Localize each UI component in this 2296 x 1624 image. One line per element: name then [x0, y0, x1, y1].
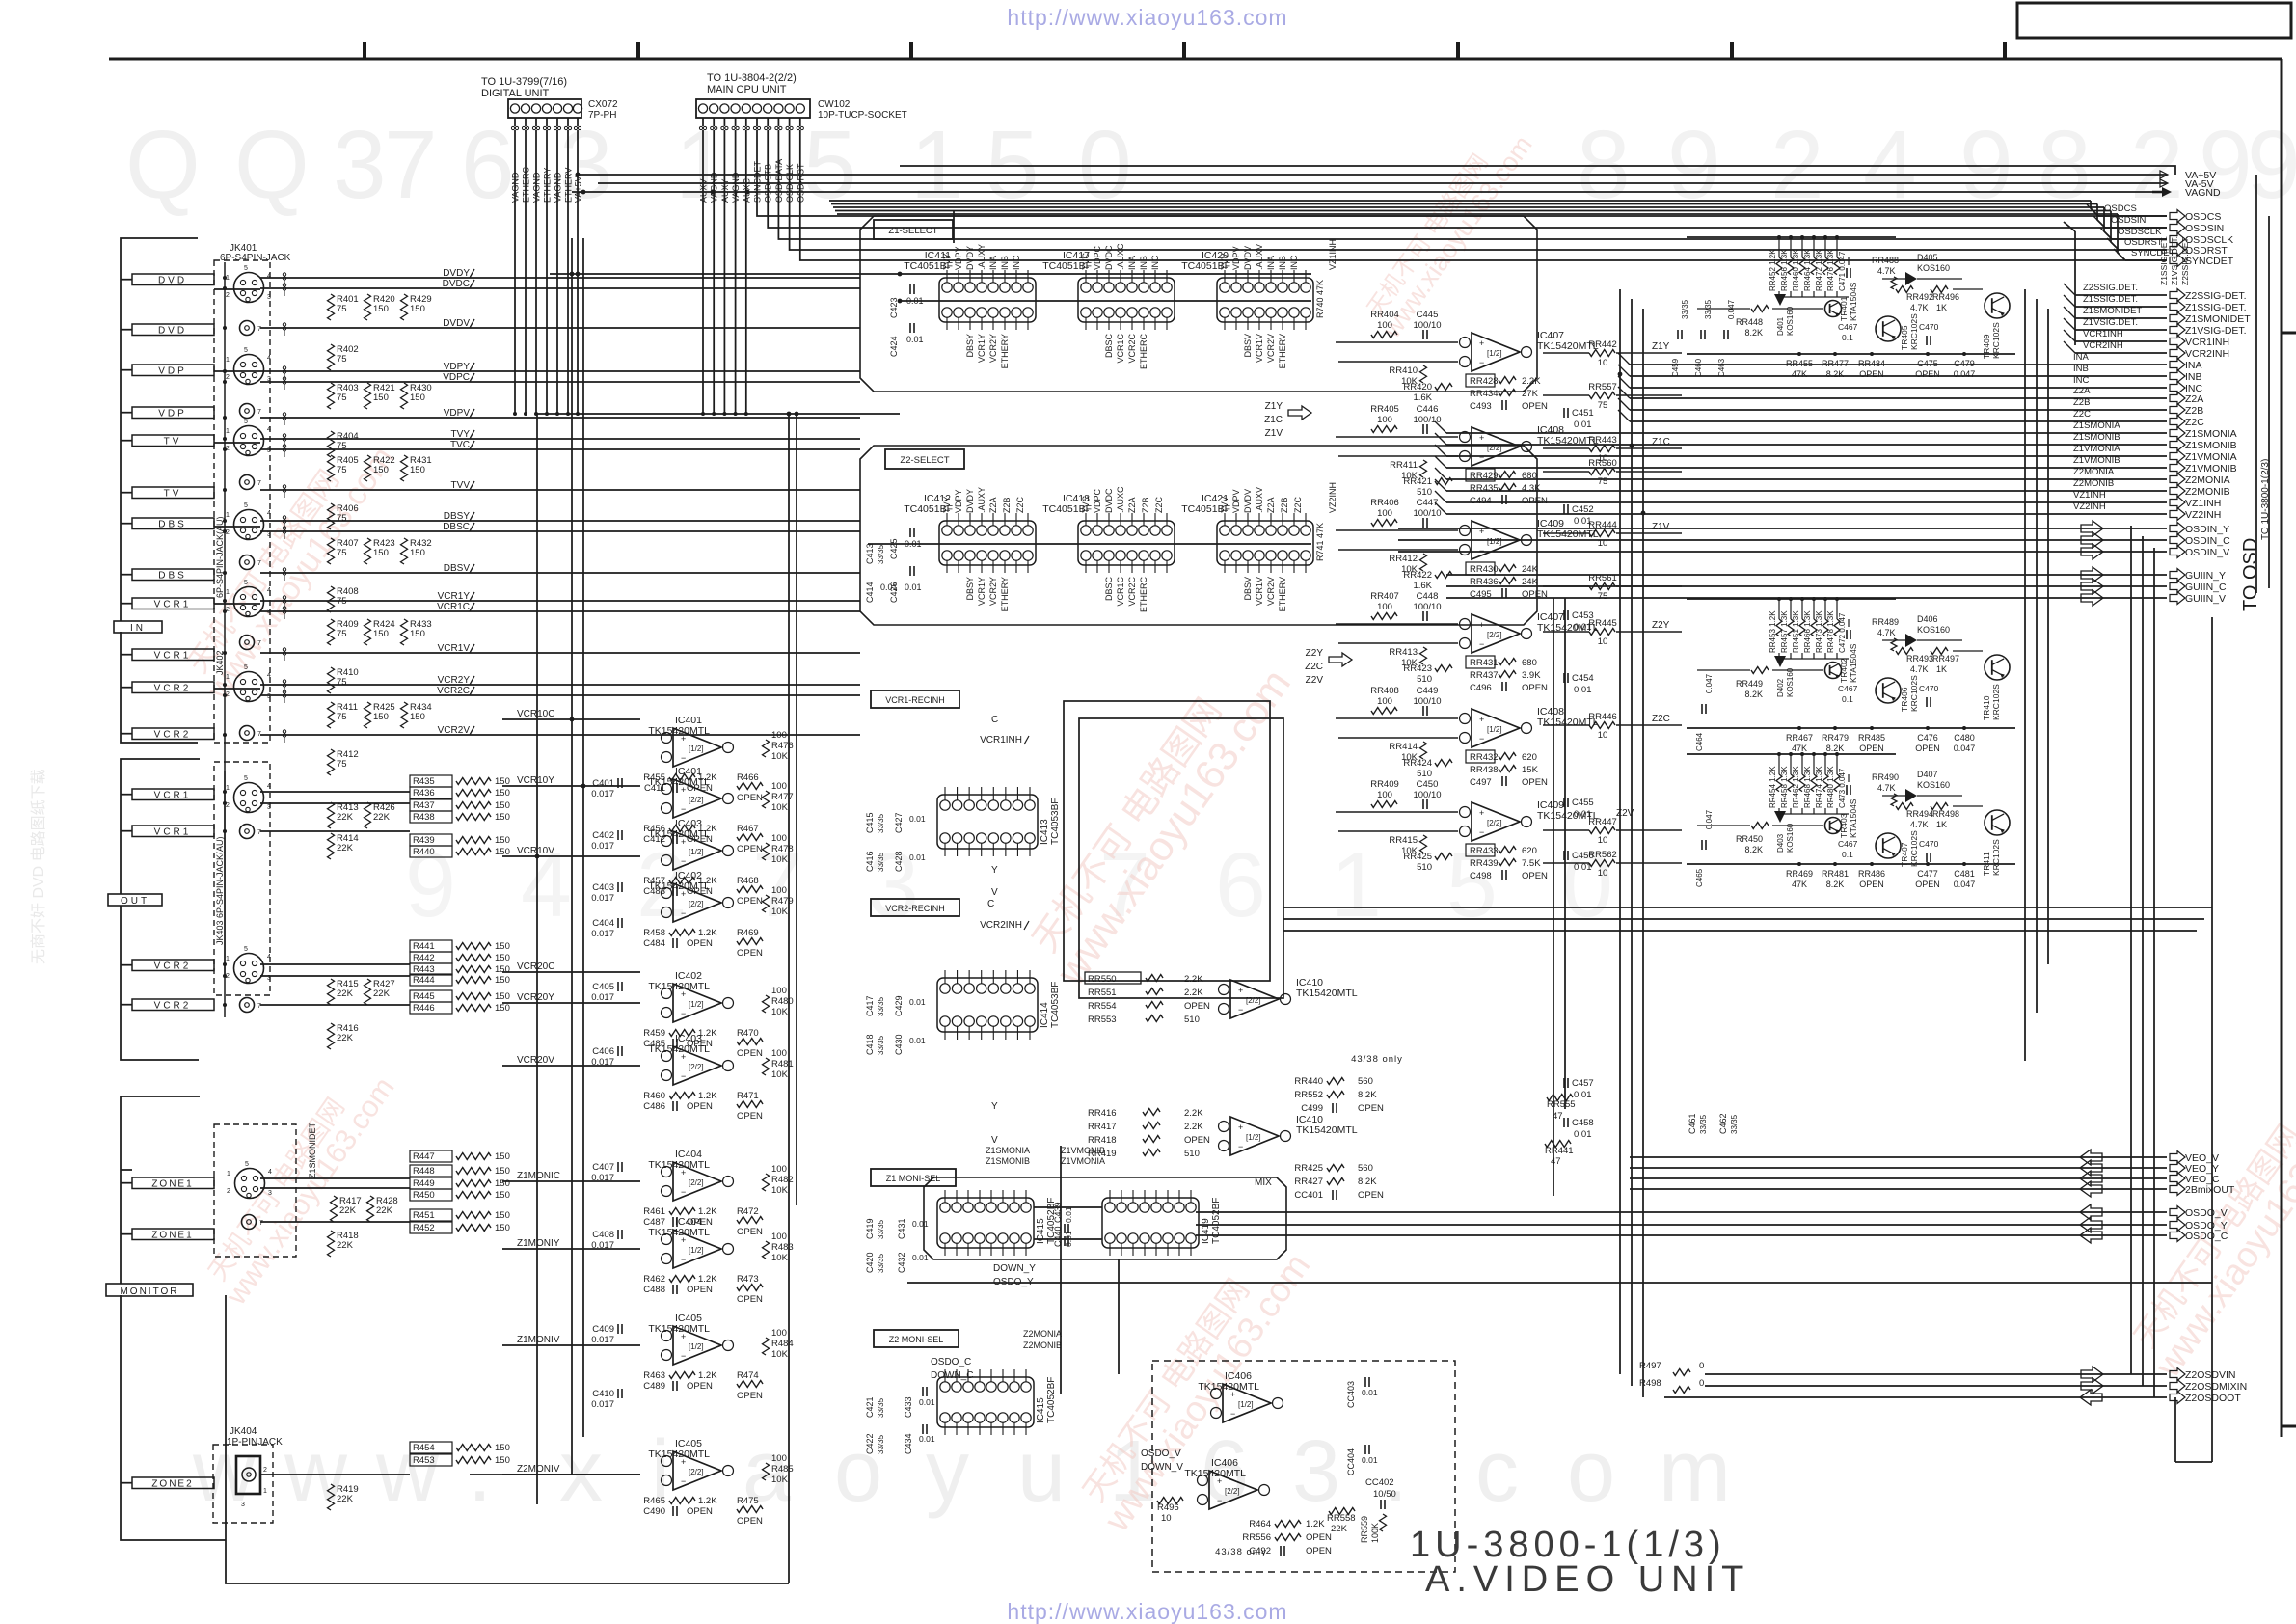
pin labels IC417 bottom — [1104, 334, 1148, 370]
svg-text:Z1VSIG-DET.: Z1VSIG-DET. — [2185, 325, 2247, 337]
wires CW102 — [699, 118, 806, 205]
svg-text:ETHERV: ETHERV — [1278, 334, 1287, 368]
svg-text:ZONE1: ZONE1 — [151, 1179, 193, 1190]
svg-text:RR462 1.3K: RR462 1.3K — [1792, 766, 1800, 808]
svg-text:C449: C449 — [1417, 686, 1439, 696]
svg-text:8.2K: 8.2K — [1744, 845, 1763, 854]
capacitor C410 0.017 — [591, 1389, 622, 1410]
wires OSD bus — [757, 205, 2167, 260]
svg-text:RR550: RR550 — [1088, 974, 1117, 985]
wires MONI-SEL interlinks — [1034, 1207, 1102, 1239]
watermark pink 2 — [1016, 639, 1300, 994]
svg-text:VCR1: VCR1 — [154, 791, 192, 801]
svg-text:R447: R447 — [413, 1151, 435, 1162]
capacitor C461 33/35 — [1688, 1113, 1708, 1134]
resistor RR422 1.6K — [1403, 570, 1452, 591]
svg-text:[1/2]: [1/2] — [1487, 725, 1502, 734]
svg-text:OSDSCLK: OSDSCLK — [2118, 227, 2162, 237]
resistor R426 22K — [365, 802, 395, 828]
svg-text:C497: C497 — [1470, 777, 1492, 788]
svg-text:100: 100 — [1377, 508, 1392, 519]
svg-text:2.2K: 2.2K — [1184, 1122, 1203, 1132]
svg-text:75: 75 — [337, 392, 347, 403]
node VCR20Y — [502, 992, 640, 1003]
svg-text:10K: 10K — [771, 1069, 789, 1080]
capacitor C409 0.017 — [591, 1324, 622, 1345]
svg-text:VZ2INH: VZ2INH — [2073, 501, 2106, 512]
svg-text:4.7K: 4.7K — [1877, 783, 1896, 793]
resistor RR440 560 — [1294, 1076, 1372, 1087]
svg-text:−: − — [1479, 827, 1484, 837]
jack JK404 dashed outline — [213, 1445, 273, 1523]
svg-text:C448: C448 — [1417, 591, 1439, 602]
pin labels IC412 bottom — [965, 577, 1010, 611]
svg-text:R480: R480 — [771, 996, 794, 1007]
resistor R425 150 — [365, 702, 395, 728]
resistor RR423 510 — [1403, 663, 1452, 685]
svg-text:33/35: 33/35 — [877, 996, 885, 1016]
svg-text:RR485: RR485 — [1858, 733, 1885, 743]
IC IC413 TC4053BF — [937, 787, 1061, 856]
svg-text:DBSV: DBSV — [1243, 334, 1253, 358]
svg-text:RR458 1.3K: RR458 1.3K — [1780, 766, 1789, 808]
capacitor C486 OPEN — [643, 1101, 713, 1112]
net OSDIN_V out — [1398, 544, 2229, 559]
svg-text:100: 100 — [771, 730, 787, 741]
svg-text:4: 4 — [267, 273, 271, 280]
svg-text:KRC102S: KRC102S — [1909, 313, 1919, 350]
svg-text:Z1VMONIA: Z1VMONIA — [2073, 444, 2120, 454]
svg-text:C416: C416 — [865, 851, 875, 872]
svg-text:5: 5 — [986, 111, 1040, 219]
net Z1VSIG-DET. out — [2064, 317, 2247, 337]
svg-text:VCR1: VCR1 — [154, 827, 192, 838]
svg-text:OSDSIN: OSDSIN — [2185, 223, 2224, 234]
transistor cluster TR401/TR405/TR409 — [1671, 235, 2015, 379]
svg-text:OPEN: OPEN — [1522, 496, 1548, 506]
svg-text:2: 2 — [226, 374, 230, 381]
resistor R471 OPEN — [737, 1091, 763, 1122]
watermark url bottom — [1007, 1599, 1287, 1624]
resistor RR435 4.3K — [1470, 483, 1541, 494]
svg-text:TVY: TVY — [942, 496, 952, 513]
resistor R740 47K — [1315, 280, 1325, 318]
svg-text:4.7K: 4.7K — [1910, 664, 1929, 674]
resistor RR557 75 — [1543, 382, 1682, 411]
svg-text:OPEN: OPEN — [737, 1048, 763, 1059]
resistor R432 150 — [401, 538, 432, 564]
resistor R414 22K — [328, 833, 359, 859]
svg-text:MONITOR: MONITOR — [120, 1286, 178, 1297]
net Z1SSIG-DET. out — [2064, 294, 2247, 313]
svg-text:D403: D403 — [1776, 833, 1785, 853]
resistor R446 150 — [410, 1002, 510, 1014]
svg-text:C493: C493 — [1470, 401, 1492, 412]
svg-text:0.017: 0.017 — [591, 1057, 614, 1068]
svg-text:10K: 10K — [771, 1185, 789, 1196]
svg-text:−: − — [681, 908, 686, 918]
svg-text:R452: R452 — [413, 1223, 435, 1233]
svg-text:0.017: 0.017 — [591, 1240, 614, 1251]
jack JK401 label — [220, 243, 291, 263]
svg-text:0.017: 0.017 — [591, 1335, 614, 1345]
svg-text:DVDC: DVDC — [443, 279, 470, 289]
net Z1VMONIA out — [1435, 444, 2237, 463]
svg-text:Z1SSIG-DET.: Z1SSIG-DET. — [2185, 302, 2247, 313]
svg-text:KOS160: KOS160 — [1786, 667, 1795, 697]
svg-text:Z2C: Z2C — [1652, 714, 1670, 724]
connector CW102 10P-TUCP-SOCKET — [696, 72, 907, 121]
resistor RR438 15K — [1470, 765, 1539, 775]
svg-text:x: x — [559, 1423, 603, 1520]
svg-text:0.1: 0.1 — [1842, 333, 1853, 342]
svg-text:OPEN: OPEN — [1306, 1546, 1332, 1556]
svg-text:INC: INC — [1289, 255, 1299, 270]
svg-text:ETHERC: ETHERC — [1139, 577, 1148, 613]
svg-text:150: 150 — [495, 1443, 510, 1453]
node DVDC — [443, 279, 474, 289]
svg-text:R436: R436 — [413, 788, 435, 798]
svg-text:VAGND: VAGND — [532, 172, 542, 203]
svg-text:C418: C418 — [865, 1034, 875, 1055]
svg-text:OSDIN_C: OSDIN_C — [2185, 535, 2230, 547]
resistor R443 150 — [410, 963, 510, 975]
pin labels IC418 Z2 — [1127, 496, 1164, 513]
svg-text:.: . — [468, 1423, 492, 1520]
op-amp IC409 [2/2] — [1336, 799, 1599, 841]
svg-text:Z1Y: Z1Y — [1265, 401, 1283, 412]
svg-text:Z2MONIA: Z2MONIA — [1023, 1329, 1062, 1339]
svg-text:C489: C489 — [643, 1381, 665, 1392]
svg-text:DOWN_C: DOWN_C — [931, 1370, 973, 1381]
svg-text:R481: R481 — [771, 1059, 794, 1069]
resistor R480 10K — [763, 986, 794, 1017]
resistor R430 150 — [401, 383, 432, 409]
svg-text:VCR1V: VCR1V — [1255, 577, 1264, 606]
svg-text:Z1MONIV: Z1MONIV — [517, 1335, 560, 1345]
svg-text:D401: D401 — [1776, 316, 1785, 336]
resistor RR436 24K — [1470, 577, 1539, 587]
svg-text:OPEN: OPEN — [1306, 1532, 1332, 1543]
svg-text:DVDY: DVDY — [965, 246, 975, 270]
svg-text:TO OSD: TO OSD — [2240, 538, 2261, 611]
pin labels IC420 top — [1220, 244, 1299, 270]
svg-text:DVDC: DVDC — [1104, 488, 1114, 513]
svg-text:47K: 47K — [1792, 880, 1807, 889]
resistor RR408 100 — [1370, 686, 1399, 715]
svg-text:33/35: 33/35 — [1730, 1114, 1739, 1134]
svg-text:Z2A: Z2A — [1266, 497, 1276, 513]
svg-text:150: 150 — [373, 304, 389, 314]
svg-text:VCR1V: VCR1V — [438, 643, 471, 654]
svg-text:150: 150 — [495, 1455, 510, 1466]
svg-text:INA: INA — [1127, 256, 1137, 270]
svg-text:VCR2: VCR2 — [154, 961, 192, 972]
svg-text:C404: C404 — [592, 918, 614, 929]
svg-text:560: 560 — [1358, 1076, 1373, 1087]
jack RCA OUT 1 — [240, 825, 262, 839]
svg-text:Z2B: Z2B — [2073, 397, 2090, 408]
svg-text:0.01: 0.01 — [1574, 516, 1592, 527]
svg-text:C431: C431 — [897, 1218, 906, 1239]
svg-text:33/35: 33/35 — [1704, 299, 1713, 319]
title 1U-3800-1(1/3) — [1410, 1525, 1726, 1565]
capacitor C426 0.01 — [889, 566, 922, 603]
svg-text:3: 3 — [268, 1190, 272, 1197]
svg-text:C430: C430 — [894, 1034, 904, 1055]
svg-text:VAGND: VAGND — [710, 172, 719, 203]
svg-text:VCR2Y: VCR2Y — [988, 577, 998, 606]
svg-text:3: 3 — [267, 804, 271, 811]
svg-text:RR431: RR431 — [1470, 658, 1499, 668]
svg-text:Z2-SELECT: Z2-SELECT — [900, 455, 949, 466]
svg-text:R477: R477 — [771, 792, 794, 802]
svg-text:680: 680 — [1522, 658, 1537, 668]
svg-text:7: 7 — [257, 326, 261, 333]
capacitor C499 OPEN — [1301, 1103, 1384, 1114]
net VAGND out — [572, 187, 2221, 199]
svg-text:R449: R449 — [413, 1178, 435, 1189]
resistor R421 150 — [365, 383, 395, 409]
svg-text:10K: 10K — [771, 802, 789, 813]
svg-text:C490: C490 — [643, 1506, 665, 1517]
svg-text:C456: C456 — [1572, 851, 1594, 861]
svg-text:Z2C: Z2C — [1154, 496, 1164, 513]
svg-text:RR478 1.3K: RR478 1.3K — [1826, 610, 1835, 653]
op-amp IC405 [2/2] — [648, 1438, 733, 1490]
svg-text:ETHERC: ETHERC — [1139, 334, 1148, 370]
svg-text:22K: 22K — [337, 843, 354, 853]
svg-text:C473 0.047: C473 0.047 — [1838, 768, 1847, 808]
svg-text:1P-PINJACK: 1P-PINJACK — [227, 1437, 283, 1448]
svg-text:VAGND: VAGND — [554, 172, 563, 203]
svg-text:C414: C414 — [865, 582, 875, 603]
svg-text:100: 100 — [771, 986, 787, 996]
input label VDP y378 — [121, 365, 214, 377]
node VCR10Y — [502, 775, 640, 786]
net VCR1INH out — [2064, 329, 2229, 348]
svg-text:TK15420MTL: TK15420MTL — [648, 981, 710, 992]
svg-text:100: 100 — [771, 885, 787, 896]
svg-text:C417: C417 — [865, 995, 875, 1016]
capacitor C432 0.01 — [897, 1252, 929, 1273]
net Z1SMONIB out — [1435, 432, 2237, 451]
svg-text:o: o — [1567, 1423, 1615, 1520]
svg-text:INB: INB — [1139, 256, 1148, 270]
jack pin ZONE2 — [236, 1456, 267, 1508]
capacitor C416 33/35 — [865, 851, 885, 872]
capacitor C492 OPEN — [1249, 1546, 1332, 1556]
svg-text:RR427: RR427 — [1294, 1177, 1323, 1187]
output label VCR2 y1036 — [121, 999, 214, 1012]
capacitor C425 0.01 — [889, 528, 922, 559]
resistor R473 OPEN — [737, 1274, 763, 1305]
svg-text:−: − — [681, 1351, 686, 1361]
svg-text:8: 8 — [2038, 111, 2092, 219]
net Z2C out — [1618, 409, 2204, 428]
svg-text:Z2B: Z2B — [2185, 405, 2203, 417]
input label TV y505 — [121, 487, 214, 500]
svg-text:3: 3 — [333, 111, 387, 219]
svg-text:KOS160: KOS160 — [1786, 306, 1795, 336]
monitor label ZONE2 y1532 — [121, 1477, 214, 1490]
capacitor C495 OPEN — [1470, 588, 1548, 600]
svg-text:1: 1 — [1331, 834, 1382, 936]
node VCR10V — [502, 846, 640, 856]
svg-text:RR437: RR437 — [1470, 670, 1499, 681]
svg-text:C402: C402 — [592, 830, 614, 841]
resistor R468 OPEN — [737, 876, 763, 907]
resistor RR415 10K — [1389, 835, 1426, 856]
resistor R403 75 — [328, 383, 359, 409]
svg-text:VCR20Y: VCR20Y — [517, 992, 554, 1003]
svg-text:DVDV: DVDV — [1243, 246, 1253, 270]
pin labels IC418 top — [1081, 486, 1125, 513]
svg-text:RR552: RR552 — [1294, 1090, 1323, 1100]
svg-text:150: 150 — [495, 975, 510, 986]
svg-text:VCR10C: VCR10C — [517, 709, 554, 719]
svg-text:VCR2-RECINH: VCR2-RECINH — [885, 904, 945, 913]
svg-text:R470: R470 — [737, 1028, 759, 1039]
resistor RR416 2.2K — [1088, 1108, 1203, 1119]
svg-text:GUIIN_V: GUIIN_V — [2185, 593, 2226, 605]
resistor RR427 8.2K — [1294, 1177, 1377, 1187]
svg-text:TR402: TR402 — [1839, 658, 1849, 683]
svg-text:47K: 47K — [1792, 369, 1807, 379]
svg-text:3: 3 — [267, 693, 271, 700]
input label VDP y422 — [121, 407, 214, 420]
net OSDIN_Y out — [1398, 521, 2229, 536]
svg-text:10/50: 10/50 — [1373, 1489, 1396, 1500]
pin labels IC421 Z2 — [1266, 496, 1303, 513]
resistor RR555 47 — [1547, 1095, 1576, 1123]
svg-text:.AUXV: .AUXV — [1255, 487, 1264, 513]
svg-text:TVV: TVV — [1220, 253, 1229, 270]
transistor cluster TR402/TR406/TR410 — [1687, 597, 2015, 753]
svg-text:4: 4 — [267, 672, 271, 679]
svg-text:OSDO_C: OSDO_C — [931, 1357, 971, 1367]
svg-text:OPEN: OPEN — [737, 1294, 763, 1305]
svg-text:RR433: RR433 — [1470, 846, 1499, 856]
svg-text:C467: C467 — [1838, 839, 1858, 849]
svg-text:4: 4 — [267, 510, 271, 517]
svg-text:RR411: RR411 — [1390, 460, 1418, 471]
svg-text:INA: INA — [2073, 352, 2090, 363]
svg-text:R740 47K: R740 47K — [1315, 280, 1325, 318]
wire horizontals net — [226, 166, 2212, 1583]
svg-text:4: 4 — [267, 426, 271, 433]
svg-text:TK15420MTL: TK15420MTL — [1198, 1381, 1259, 1393]
svg-text:3: 3 — [241, 1502, 245, 1508]
svg-text:C470: C470 — [1919, 322, 1939, 332]
svg-text:R469: R469 — [737, 928, 759, 938]
svg-text:2: 2 — [2130, 111, 2184, 219]
IC IC415 TC4052BF — [937, 1190, 1057, 1256]
svg-text:OPEN: OPEN — [737, 896, 763, 907]
svg-text:2.2K: 2.2K — [1184, 1108, 1203, 1119]
svg-text:OSDCS: OSDCS — [2185, 211, 2221, 223]
svg-text:0.01: 0.01 — [909, 997, 926, 1007]
pin labels IC421 top — [1220, 487, 1264, 513]
svg-text:−: − — [1479, 358, 1484, 367]
svg-text:150: 150 — [373, 392, 389, 403]
capacitor C485 OPEN — [643, 1039, 713, 1049]
svg-text:C453: C453 — [1572, 610, 1594, 621]
svg-text:0.017: 0.017 — [591, 789, 614, 799]
svg-text:5: 5 — [244, 347, 248, 354]
svg-text:RR415: RR415 — [1389, 835, 1418, 846]
capacitor C420 33/35 — [865, 1252, 885, 1273]
resistor R448 150 — [410, 1165, 510, 1177]
svg-text:RR486: RR486 — [1858, 869, 1885, 879]
resistor R409 75 — [328, 619, 359, 645]
svg-text:DVDY: DVDY — [965, 489, 975, 513]
resistor R467 OPEN — [737, 824, 763, 854]
op-amp IC402 [1/2] — [648, 970, 733, 1022]
resistor R424 150 — [365, 619, 395, 645]
svg-text:C426: C426 — [889, 582, 899, 603]
resistor R415 22K — [328, 979, 359, 1005]
svg-text:Z2Y: Z2Y — [1652, 620, 1670, 631]
node VCR1V — [438, 643, 474, 654]
node Z1MONIC — [502, 1171, 640, 1181]
wires MONITOR jacks — [121, 1170, 640, 1475]
input label DVD y336 — [121, 324, 214, 337]
svg-text:VCR2INH: VCR2INH — [2185, 348, 2229, 360]
svg-text:22K: 22K — [337, 812, 354, 823]
svg-text:RR416: RR416 — [1088, 1108, 1117, 1119]
capacitor CC403 0.01 — [1346, 1377, 1378, 1408]
jack S-video IN 2 — [226, 347, 271, 385]
svg-text:4.7K: 4.7K — [1877, 266, 1896, 276]
resistor RR424 510 — [1403, 758, 1452, 779]
resistor R441 150 — [410, 940, 510, 952]
svg-text:R454: R454 — [413, 1443, 435, 1453]
svg-text:−: − — [1230, 1409, 1235, 1419]
resistor R458 1.2K — [643, 928, 717, 938]
svg-text:C462: C462 — [1718, 1113, 1728, 1134]
svg-text:RR554: RR554 — [1088, 1001, 1117, 1012]
capacitor C424 0.01 — [889, 323, 924, 357]
net Z2A out — [1618, 386, 2203, 405]
svg-text:DBSC: DBSC — [1104, 577, 1114, 602]
svg-text:DVDY: DVDY — [443, 268, 470, 279]
net OSDO_V out — [1196, 1204, 2228, 1220]
svg-text:OSDIN_Y: OSDIN_Y — [2185, 524, 2229, 535]
resistor RR420 1.6K — [1403, 382, 1452, 403]
net Z2OSDMIXIN out — [1705, 1378, 2247, 1394]
svg-text:2: 2 — [263, 1467, 267, 1474]
svg-text:[2/2]: [2/2] — [1487, 631, 1502, 639]
svg-text:+: + — [1479, 715, 1484, 724]
svg-text:10K: 10K — [771, 854, 789, 865]
resistor R408 75 — [328, 586, 359, 612]
svg-text:RR480 1.3K: RR480 1.3K — [1826, 766, 1835, 808]
svg-text:0.01: 0.01 — [1574, 685, 1592, 695]
resistor R497 0 — [1639, 1361, 1704, 1376]
capacitor C415 33/35 — [865, 812, 885, 833]
svg-text:1.2K: 1.2K — [698, 1370, 717, 1381]
svg-text:Z2SSIG-DET.: Z2SSIG-DET. — [2185, 290, 2247, 302]
svg-text:C472 0.047: C472 0.047 — [1838, 612, 1847, 653]
svg-text:TC4052BF: TC4052BF — [1211, 1198, 1222, 1244]
node VCR2INH — [980, 899, 1029, 931]
svg-text:VCR2V: VCR2V — [438, 725, 471, 736]
svg-text:VCR1INH: VCR1INH — [980, 735, 1022, 745]
svg-text:.AUXV: .AUXV — [1255, 244, 1264, 270]
node VCR2Y — [438, 675, 474, 686]
IC IC414 TC4053BF — [937, 970, 1061, 1040]
